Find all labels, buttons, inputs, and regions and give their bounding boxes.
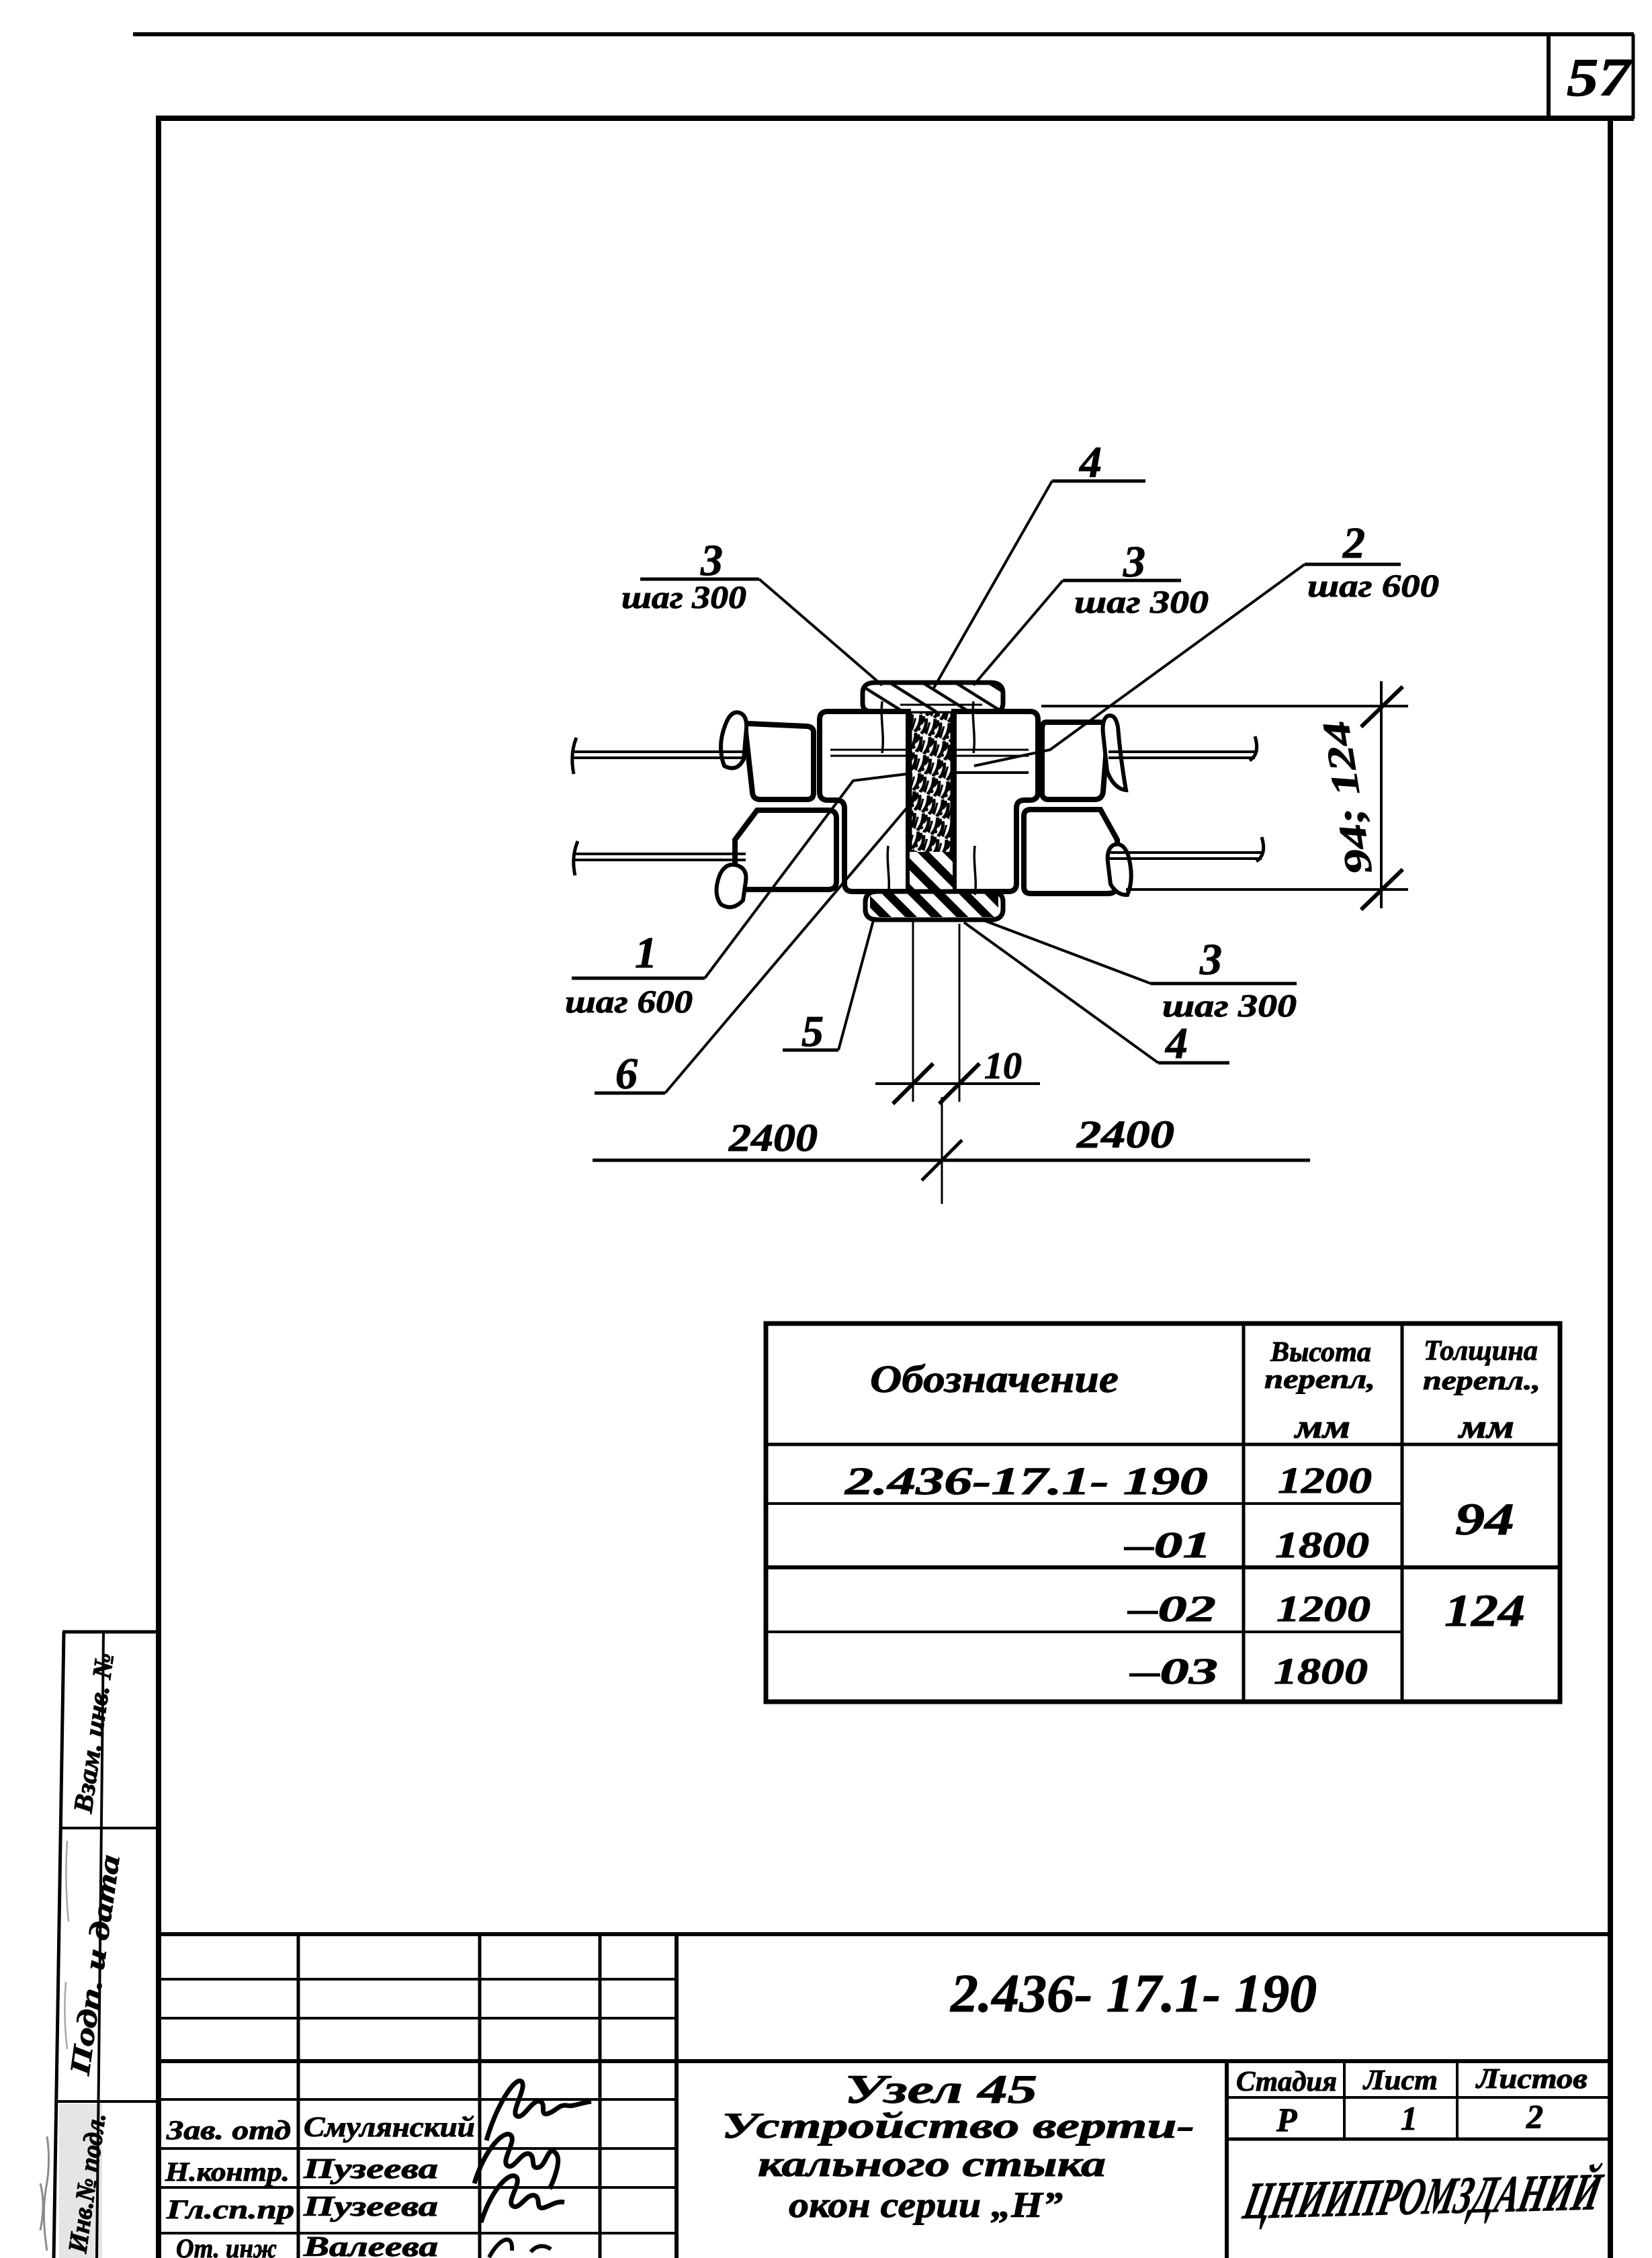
left upper glazing wedge xyxy=(721,712,746,768)
left upper sash xyxy=(746,724,814,799)
overall dimension line 2400 2400 xyxy=(593,1159,1310,1162)
stage block rows xyxy=(1227,2096,1610,2099)
svg-text:Н.контр.: Н.контр. xyxy=(165,2157,290,2187)
right lower pane lines xyxy=(1106,853,1262,859)
svg-text:Валеева: Валеева xyxy=(303,2232,438,2258)
svg-text:1800: 1800 xyxy=(1275,1524,1369,1565)
left mullion block xyxy=(820,711,908,892)
svg-text:перепл.,: перепл., xyxy=(1423,1365,1540,1395)
svg-text:Толщина: Толщина xyxy=(1424,1336,1538,1366)
right lower glazing wedge xyxy=(1108,844,1131,895)
svg-text:10: 10 xyxy=(984,1045,1022,1087)
svg-text:шаг 600: шаг 600 xyxy=(1307,568,1439,604)
svg-text:окон серии „Н”: окон серии „Н” xyxy=(789,2185,1063,2225)
svg-text:3: 3 xyxy=(1199,935,1222,984)
title block top line xyxy=(159,1932,1610,1936)
svg-text:57: 57 xyxy=(1567,48,1633,107)
dimension slashes xyxy=(1361,687,1403,910)
left upper pane lines xyxy=(572,752,746,758)
svg-text:–03: –03 xyxy=(1129,1651,1218,1692)
svg-text:Стадия: Стадия xyxy=(1236,2067,1337,2097)
svg-text:4: 4 xyxy=(1164,1019,1188,1068)
left lower pane lines xyxy=(574,854,746,860)
svg-text:Пузеева: Пузеева xyxy=(303,2191,438,2222)
svg-text:6: 6 xyxy=(615,1049,638,1098)
svg-text:Обозначение: Обозначение xyxy=(870,1357,1119,1401)
right dimension extension top xyxy=(1041,705,1408,707)
title block mid line xyxy=(159,2059,1610,2063)
right upper sash xyxy=(1042,722,1108,799)
right upper pane lines xyxy=(1108,752,1255,758)
top gusset cap xyxy=(863,683,1003,713)
parts table row lines xyxy=(766,1443,1560,1446)
svg-text:Пузеева: Пузеева xyxy=(303,2154,438,2185)
svg-text:мм: мм xyxy=(1458,1407,1514,1445)
svg-text:шаг 300: шаг 300 xyxy=(621,580,746,615)
left margin strip xyxy=(54,1632,64,2258)
svg-text:Устройство верти-: Устройство верти- xyxy=(722,2105,1194,2146)
glazing stubs inside blocks xyxy=(830,750,1029,756)
scan smudge bottom strip cell xyxy=(59,2104,102,2258)
svg-text:1800: 1800 xyxy=(1274,1651,1368,1692)
svg-text:2400: 2400 xyxy=(728,1116,818,1160)
svg-text:шаг 300: шаг 300 xyxy=(1074,584,1209,620)
top rule xyxy=(133,32,1634,36)
left lower glazing wedge xyxy=(716,865,746,907)
central seal column xyxy=(910,713,953,895)
svg-text:2: 2 xyxy=(1342,519,1365,568)
frame right border xyxy=(1608,121,1613,2258)
right mullion block xyxy=(954,711,1038,892)
parts table column lines xyxy=(1242,1323,1246,1702)
svg-text:кального стыка: кального стыка xyxy=(758,2144,1106,2184)
sheet number box xyxy=(1547,34,1551,119)
svg-text:Смулянский: Смулянский xyxy=(304,2112,475,2143)
signature table verticals xyxy=(297,1934,300,2258)
right upper glazing wedge xyxy=(1103,715,1126,790)
svg-text:1: 1 xyxy=(1401,2099,1418,2137)
heavy hatch seal bottom xyxy=(870,852,998,917)
svg-text:ЦНИИПРОМЗДАНИЙ: ЦНИИПРОМЗДАНИЙ xyxy=(1238,2163,1608,2230)
svg-text:–02: –02 xyxy=(1127,1588,1216,1629)
left lower sash xyxy=(735,810,836,889)
svg-text:Листов: Листов xyxy=(1475,2064,1588,2095)
svg-text:Р: Р xyxy=(1276,2101,1297,2138)
svg-text:1: 1 xyxy=(635,928,657,978)
svg-text:2: 2 xyxy=(1526,2097,1543,2135)
right dimension extension bottom xyxy=(1126,888,1408,891)
centerline xyxy=(941,1097,943,1204)
right lower sash xyxy=(1024,810,1117,894)
svg-text:2.436- 17.1- 190: 2.436- 17.1- 190 xyxy=(950,1964,1317,2024)
svg-text:2400: 2400 xyxy=(1076,1113,1174,1156)
svg-text:94; 124: 94; 124 xyxy=(1315,718,1381,877)
svg-text:От. инж: От. инж xyxy=(176,2233,277,2258)
stage block verticals xyxy=(1225,2061,1229,2258)
svg-text:2.436-17.1- 190: 2.436-17.1- 190 xyxy=(844,1459,1208,1503)
pencil strokes xyxy=(881,701,975,895)
svg-text:124: 124 xyxy=(1444,1585,1525,1636)
bottom gusset cap xyxy=(865,892,1003,920)
frame left border xyxy=(156,118,161,2258)
gap dimension 10 xyxy=(913,922,959,1102)
svg-text:94: 94 xyxy=(1455,1493,1514,1545)
svg-text:–01: –01 xyxy=(1124,1524,1211,1565)
svg-text:Зав. отд: Зав. отд xyxy=(166,2115,291,2145)
svg-text:1200: 1200 xyxy=(1278,1460,1372,1501)
svg-text:мм: мм xyxy=(1294,1407,1350,1445)
parts table outline xyxy=(766,1323,1560,1702)
svg-text:Взам. инв. №: Взам. инв. № xyxy=(67,1651,120,1815)
svg-text:перепл,: перепл, xyxy=(1264,1364,1375,1394)
frame top border xyxy=(156,116,1634,121)
signature table rows xyxy=(159,1978,677,1981)
svg-text:Подп. и дата: Подп. и дата xyxy=(64,1853,126,2078)
svg-text:Гл.сп.пр: Гл.сп.пр xyxy=(166,2194,294,2224)
svg-text:Лист: Лист xyxy=(1362,2065,1438,2096)
svg-text:1200: 1200 xyxy=(1276,1588,1371,1629)
right dimension line xyxy=(1380,681,1383,908)
svg-text:шаг 600: шаг 600 xyxy=(565,984,693,1020)
